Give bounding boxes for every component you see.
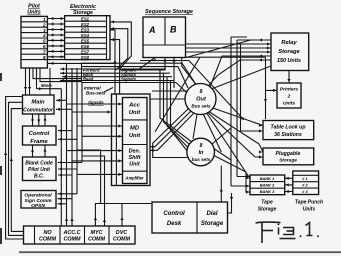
svg-text:Units: Units — [283, 101, 295, 107]
pilot units box — [21, 16, 47, 68]
tape punch units box — [293, 171, 319, 195]
out circle left horizontal — [150, 98, 185, 100]
svg-text:Unit: Unit — [129, 110, 141, 116]
svg-text:Pluggable: Pluggable — [276, 151, 301, 157]
tape punch units label — [295, 200, 323, 213]
operational sign comm box — [21, 191, 56, 209]
svg-text:ES2: ES2 — [81, 22, 90, 27]
control frame box — [23, 126, 57, 145]
relay to printers wire — [288, 71, 290, 84]
svg-text:7: 7 — [43, 49, 46, 54]
svg-text:In: In — [199, 150, 205, 156]
signals lines into central unit — [67, 102, 123, 176]
svg-text:ES3: ES3 — [81, 27, 90, 32]
svg-text:Control: Control — [163, 211, 185, 217]
svg-text:Bus sets: Bus sets — [191, 104, 211, 109]
comm bar box — [24, 226, 136, 244]
svg-text:ES4: ES4 — [81, 33, 90, 38]
wires into operational right edge — [58, 193, 78, 195]
svg-text:Unit: Unit — [129, 133, 141, 139]
svg-text:8: 8 — [200, 143, 203, 149]
svg-text:BANK 1: BANK 1 — [260, 176, 274, 181]
svg-text:COMM: COMM — [39, 237, 57, 243]
svg-text:4: 4 — [42, 33, 46, 38]
svg-text:Signals: Signals — [121, 76, 137, 81]
svg-text:Units: Units — [27, 10, 40, 16]
wire printers feeder — [266, 57, 278, 119]
signals labels column — [121, 68, 137, 82]
svg-text:Control: Control — [29, 131, 50, 137]
svg-text:Tape Punch: Tape Punch — [295, 200, 323, 206]
wires into blank code right edge — [58, 162, 82, 164]
sequence storage bottom feeds — [120, 58, 196, 89]
svg-text:Printers: Printers — [280, 87, 298, 93]
ES right side input wires — [110, 20, 131, 94]
svg-text:COMM: COMM — [113, 237, 131, 243]
svg-text:Commutator: Commutator — [23, 108, 54, 114]
in circle to control desk riser — [220, 166, 222, 203]
svg-text:Storage: Storage — [279, 158, 297, 164]
svg-text:Bus-sets: Bus-sets — [86, 91, 106, 96]
printers units box — [277, 83, 301, 108]
svg-text:2: 2 — [287, 94, 291, 100]
central unit outer box — [112, 94, 151, 186]
wire ES bottom to central unit rail — [114, 60, 116, 94]
svg-text:Units: Units — [303, 207, 316, 213]
svg-text:Acc: Acc — [128, 103, 140, 109]
svg-text:Amplifier: Amplifier — [124, 176, 144, 181]
bus fan to right side — [140, 57, 266, 157]
banks to punch wires — [285, 177, 293, 193]
svg-text:Storage: Storage — [73, 10, 93, 16]
comm bar cell risers — [94, 204, 152, 227]
bus fan to in circle — [160, 69, 193, 151]
svg-text:NO: NO — [43, 230, 52, 236]
wire seq diag to verticals — [186, 37, 252, 186]
pilot units title — [27, 4, 40, 16]
svg-text:MD: MD — [130, 126, 140, 132]
svg-text:# 3: # 3 — [302, 189, 308, 194]
out circle to relay wire — [213, 66, 272, 89]
dial storage right bracket — [228, 193, 232, 213]
svg-text:A: A — [148, 25, 156, 35]
svg-text:COMM: COMM — [63, 237, 81, 243]
in circle top right wire — [212, 128, 231, 144]
svg-text:B: B — [170, 25, 177, 35]
sequence to relay wires — [186, 42, 272, 53]
left bracket wires — [4, 97, 24, 240]
main commutator box — [23, 95, 55, 114]
svg-text:36 Stations: 36 Stations — [274, 132, 302, 138]
out circle right fan — [206, 107, 263, 179]
blank code pilot unit box — [23, 157, 57, 181]
svg-text:Signals: Signals — [88, 100, 104, 105]
svg-text:8: 8 — [43, 55, 46, 60]
svg-text:Dial: Dial — [206, 211, 217, 217]
svg-text:ES7: ES7 — [81, 49, 90, 54]
relay storage box — [271, 33, 309, 71]
out bus circle — [185, 84, 216, 115]
wires into control frame right edge — [58, 130, 72, 132]
svg-text:6: 6 — [43, 44, 46, 49]
right verticals into banks — [231, 160, 250, 188]
svg-text:ES1: ES1 — [81, 16, 90, 21]
in bus circle — [187, 138, 215, 166]
left edge scan marks — [0, 73, 2, 81]
svg-text:COMM: COMM — [88, 237, 106, 243]
electronic storage box — [65, 16, 110, 60]
svg-text:ACC.C: ACC.C — [62, 230, 80, 236]
svg-text:Read: Read — [83, 76, 94, 81]
wire diagonal arrow at table corner — [241, 117, 244, 120]
sequence storage box — [143, 17, 186, 58]
svg-text:8: 8 — [200, 89, 203, 95]
svg-text:Unit: Unit — [129, 162, 140, 168]
svg-text:Operational: Operational — [24, 193, 52, 199]
svg-text:ES5: ES5 — [81, 38, 90, 43]
move line — [37, 89, 62, 226]
svg-text:B.C.: B.C. — [34, 174, 44, 180]
svg-text:BANK 2: BANK 2 — [260, 183, 275, 188]
fig.1 caption — [256, 222, 320, 243]
svg-text:150 Units: 150 Units — [277, 58, 301, 64]
svg-text:Sequence Storage: Sequence Storage — [145, 9, 193, 15]
wire seq corner to central lower diagonal — [155, 57, 200, 132]
svg-text:1: 1 — [43, 17, 46, 22]
pilot-ES row wires with double arrows — [47, 17, 64, 59]
svg-text:Table Look up: Table Look up — [271, 125, 306, 131]
svg-text:Move: Move — [41, 83, 52, 88]
in circle right fan — [213, 149, 250, 194]
out to in circle wire — [193, 114, 197, 139]
svg-text:2: 2 — [42, 22, 46, 27]
svg-text:Main: Main — [31, 100, 45, 106]
internal bus-set lines — [60, 63, 182, 82]
pilot unit row numbers 1-8 — [42, 17, 46, 60]
internal bus-sets label — [84, 86, 106, 96]
svg-text:Desk: Desk — [167, 221, 182, 227]
out circle to central unit wires — [150, 109, 194, 158]
svg-text:Blank Code: Blank Code — [25, 161, 53, 167]
svg-text:bus sets: bus sets — [192, 157, 211, 162]
svg-text:5: 5 — [43, 39, 46, 44]
svg-text:Frame: Frame — [30, 139, 48, 145]
tape storage label — [258, 200, 277, 213]
svg-text:DVC: DVC — [116, 230, 127, 236]
svg-text:Tape: Tape — [261, 200, 273, 206]
svg-text:ES6: ES6 — [81, 44, 90, 49]
table look up box — [263, 121, 314, 140]
wire into out circle upper left — [152, 90, 187, 92]
svg-text:3: 3 — [43, 28, 46, 33]
svg-text:# 2: # 2 — [302, 182, 308, 187]
control frame to blank code wires — [33, 145, 46, 157]
bottom scan line — [19, 251, 341, 253]
svg-text:BANK 3: BANK 3 — [260, 189, 275, 194]
main commutator to control frame wires — [31, 114, 47, 126]
svg-text:Storage: Storage — [201, 221, 224, 227]
svg-text:Relay: Relay — [281, 40, 297, 46]
left channel verticals — [65, 63, 82, 226]
svg-text:Out: Out — [196, 97, 207, 103]
tape storage banks box — [250, 175, 285, 195]
electronic storage title — [70, 4, 96, 16]
svg-text:Pilot Unit: Pilot Unit — [28, 167, 50, 173]
ES1-ES8 row labels — [81, 16, 90, 60]
svg-text:# 1: # 1 — [302, 176, 307, 181]
svg-text:Storage: Storage — [258, 207, 277, 213]
wires central channel risers — [77, 150, 106, 226]
svg-text:Shift: Shift — [129, 155, 141, 161]
control desk / dial storage box — [152, 202, 228, 233]
pluggable storage box — [263, 148, 314, 165]
relay output wires left — [208, 38, 271, 87]
out circle to dial vertical wire — [203, 114, 221, 153]
svg-text:Storage: Storage — [278, 49, 300, 55]
wire internal bus leader — [104, 88, 113, 93]
svg-text:OPSN: OPSN — [31, 203, 45, 209]
wire ES right column return to pilot bottom cell — [47, 30, 115, 63]
pilot bottom drop wires — [24, 68, 82, 95]
wire into main commutator right edge — [56, 99, 67, 101]
svg-text:MYC: MYC — [91, 230, 103, 236]
svg-text:ES8: ES8 — [81, 55, 90, 60]
wire pilot row8 to ES bottom link — [47, 59, 64, 61]
svg-text:Den.: Den. — [129, 149, 141, 155]
bus fan to out circle — [178, 63, 196, 88]
